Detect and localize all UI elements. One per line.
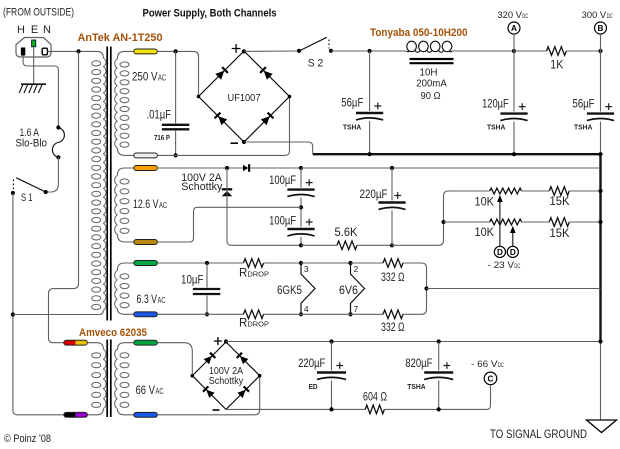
lead band black-purple T2 primary bottom bbox=[64, 412, 88, 417]
wire node N down to Amveco primary bbox=[49, 51, 79, 342]
wire E pin to earth ground bbox=[33, 47, 35, 84]
label 5.6K bbox=[335, 227, 358, 239]
svg-text:5.6K: 5.6K bbox=[335, 227, 358, 239]
node 56uF-1 bottom junction bbox=[368, 152, 372, 156]
wire T2 66VAC bottom lead bbox=[117, 409, 133, 415]
diode BR1 top-left bbox=[215, 67, 228, 80]
wire T1 250VAC top lead into winding bbox=[117, 51, 134, 59]
label TSHA C3 bbox=[574, 122, 593, 131]
label Slo-Blo bbox=[16, 137, 48, 149]
diode BR1 bottom-left bbox=[215, 113, 228, 126]
wire 6V6 pin7 to 332 lower bbox=[351, 313, 384, 315]
capacitor C_RF .01uF 716P bbox=[161, 123, 189, 131]
svg-text:1K: 1K bbox=[550, 59, 563, 71]
switch S1 bbox=[11, 178, 48, 195]
wire T1 primary bottom lead bbox=[13, 310, 103, 314]
resistor R6 332 upper bbox=[383, 259, 403, 268]
wire upper pot to 15K bbox=[522, 190, 550, 192]
node .01uF top junction bbox=[174, 49, 178, 53]
svg-text:56µF: 56µF bbox=[573, 99, 595, 111]
wire B marker stub bbox=[600, 34, 602, 51]
wire 56uF-2 leads bbox=[600, 51, 602, 154]
wire 220uF bottom to pots riser bbox=[392, 191, 490, 245]
node .01uF bottom junction bbox=[174, 153, 178, 157]
wire riser to lower pot row bbox=[444, 221, 490, 223]
node marker B circle bbox=[595, 22, 607, 34]
label (FROM OUTSIDE) bbox=[3, 7, 74, 19]
transformer T1 core bbox=[107, 47, 111, 321]
wire BR2 plus rail bbox=[226, 341, 601, 343]
wire 604 to 820uF bbox=[384, 408, 485, 410]
label 66VAC bbox=[136, 385, 164, 397]
wire 100uF top row to rail bbox=[301, 167, 601, 169]
label -23VDC bbox=[488, 260, 521, 271]
svg-text:Schottky: Schottky bbox=[209, 376, 244, 387]
capacitor C2 120uF TSHA bbox=[500, 103, 528, 121]
svg-text:TSHA: TSHA bbox=[574, 122, 593, 131]
AC mains plug P1 bbox=[16, 38, 51, 58]
label RDROP upper bbox=[239, 267, 269, 279]
label 332 lower bbox=[381, 322, 405, 334]
lead band red-yellow T2 primary top bbox=[64, 340, 88, 345]
bridge rectifier BR2 diamond bbox=[192, 342, 259, 409]
wire 220uF-B leads bbox=[331, 342, 333, 410]
svg-text:AnTek AN-1T250: AnTek AN-1T250 bbox=[78, 32, 163, 44]
label 10uF bbox=[181, 274, 204, 286]
wire 5.6K to 220uF bottom bbox=[357, 244, 392, 246]
label pin 4 bbox=[304, 304, 309, 314]
label 250VAC bbox=[132, 71, 166, 83]
wiper arrow VR1 bbox=[497, 195, 503, 246]
diode BR2 top-left bbox=[204, 353, 216, 365]
node 220uF top junction bbox=[390, 166, 394, 170]
svg-text:H: H bbox=[17, 24, 25, 36]
wire right main rail (thick) bbox=[599, 154, 601, 342]
label 100uF C4 bbox=[269, 175, 296, 187]
tube heater 6GK5 pins 3-4 bbox=[301, 263, 315, 314]
svg-text:7: 7 bbox=[354, 304, 359, 314]
node marker C circle bbox=[484, 372, 497, 385]
capacitor C8 220uF ED bbox=[317, 362, 347, 380]
label UF1007 bbox=[228, 92, 261, 104]
lead band green T2 66VAC top bbox=[134, 340, 158, 345]
label S2 bbox=[308, 57, 324, 69]
svg-text:15K: 15K bbox=[550, 196, 570, 208]
svg-text:S 2: S 2 bbox=[308, 57, 324, 69]
label ED C8 bbox=[309, 382, 319, 391]
transformer T1 250VAC winding bbox=[115, 59, 129, 148]
node 820uF top junction bbox=[437, 339, 441, 343]
label 56uF C1 bbox=[341, 97, 363, 109]
lead band blue T2 66VAC bottom bbox=[134, 412, 158, 417]
diode BR2 bottom-right bbox=[237, 386, 249, 398]
label TSHA C2 bbox=[487, 122, 506, 131]
node marker D circle 1 bbox=[494, 246, 505, 257]
label 200mA bbox=[416, 77, 447, 89]
node rail upper junction bbox=[598, 189, 602, 193]
label BR2 plus bbox=[214, 337, 222, 345]
resistor R4 15K lower bbox=[549, 218, 569, 227]
wire C marker to minus row bbox=[486, 385, 491, 410]
lead band green 6.3VAC top bbox=[134, 261, 158, 266]
wire main negative rail (thick) bbox=[313, 153, 601, 155]
resistor R5 RDROP upper bbox=[243, 259, 263, 268]
label pin 2 bbox=[354, 264, 359, 274]
svg-text:© Poinz '08: © Poinz '08 bbox=[4, 433, 51, 445]
label pin 7 bbox=[354, 304, 359, 314]
label 120uF bbox=[482, 99, 509, 111]
title Power Supply, Both Channels bbox=[143, 7, 277, 19]
capacitor C1 56uF TSHA bbox=[356, 103, 384, 121]
wire D2 to 100uF top bbox=[251, 167, 302, 169]
wire choke to node A bbox=[452, 50, 514, 52]
node B junction bbox=[598, 49, 602, 53]
wire 1K to node B bbox=[566, 50, 600, 52]
node BR2 top vertex bbox=[224, 339, 228, 343]
lead band orange 12.6VAC top bbox=[134, 166, 158, 171]
label 6.3VAC bbox=[137, 294, 166, 306]
svg-text:Slo-Blo: Slo-Blo bbox=[16, 137, 48, 149]
svg-text:RDROP: RDROP bbox=[239, 267, 269, 279]
label 716P bbox=[154, 133, 170, 142]
label 320VDC bbox=[497, 10, 528, 20]
svg-text:C: C bbox=[488, 374, 494, 383]
wire T1 6.3VAC bottom lead bbox=[117, 309, 134, 315]
node X1 junction bbox=[11, 312, 15, 316]
wire T2 primary top lead bbox=[87, 343, 103, 350]
svg-text:TSHA: TSHA bbox=[487, 122, 506, 131]
svg-text:66 VAC: 66 VAC bbox=[136, 385, 164, 397]
wire heater join to rail bbox=[427, 288, 601, 290]
transformer T1 primary winding bbox=[92, 58, 106, 310]
svg-text:ED: ED bbox=[309, 382, 319, 391]
label copyright Poinz bbox=[4, 433, 51, 445]
svg-text:604 Ω: 604 Ω bbox=[363, 392, 387, 404]
capacitor C4 100uF upper bbox=[287, 179, 315, 197]
tube heater 6V6 pins 2-7 bbox=[351, 263, 365, 314]
diode BR1 top-right bbox=[260, 67, 273, 80]
label TSHA C1 bbox=[343, 123, 362, 132]
svg-text:TSHA: TSHA bbox=[343, 123, 362, 132]
wire 12.6VAC top row bbox=[157, 167, 243, 169]
wire 332 upper to join riser bbox=[403, 263, 427, 289]
svg-text:6.3 VAC: 6.3 VAC bbox=[137, 294, 166, 306]
wire BR1 plus to S2 bbox=[244, 50, 299, 52]
svg-text:6GK5: 6GK5 bbox=[277, 285, 302, 297]
resistor R8 332 lower bbox=[383, 310, 403, 319]
label -66VDC bbox=[471, 359, 504, 370]
wire BR1 minus to main negative rail bbox=[244, 142, 313, 154]
svg-text:B: B bbox=[598, 24, 604, 33]
node A junction bbox=[512, 49, 516, 53]
label Schottky D1 bbox=[181, 181, 222, 193]
wire S1 to node X1 and Amveco primary bottom bbox=[13, 193, 64, 415]
wire 332 lower join riser bbox=[403, 289, 427, 315]
label 1K bbox=[550, 59, 563, 71]
svg-text:250 VAC: 250 VAC bbox=[132, 71, 166, 83]
wire S2 to choke bbox=[331, 50, 407, 52]
label 90ohm bbox=[421, 90, 441, 102]
lead band blue 6.3VAC bottom bbox=[134, 312, 158, 317]
wire T1 6.3VAC top lead bbox=[117, 263, 134, 270]
transformer T2 primary winding bbox=[92, 349, 106, 408]
label E bbox=[31, 24, 38, 36]
capacitor C6 220uF mid bbox=[378, 192, 406, 210]
lead band white 250VAC bottom bbox=[134, 153, 158, 158]
resistor R7 RDROP lower bbox=[243, 310, 263, 319]
title Amveco 62035 bbox=[79, 327, 147, 339]
node 10uF bottom junction bbox=[205, 312, 209, 316]
wire H pin to fuse F1 bbox=[23, 56, 58, 126]
wire 56uF-1 leads bbox=[369, 51, 371, 154]
svg-text:E: E bbox=[31, 24, 38, 36]
label 820uF C9 bbox=[405, 358, 432, 370]
svg-text:10µF: 10µF bbox=[181, 274, 204, 286]
svg-text:Power Supply, Both Channels: Power Supply, Both Channels bbox=[143, 7, 277, 19]
wire 6.3V bottom row segment 1 bbox=[157, 313, 243, 315]
wire 820uF leads bbox=[438, 342, 440, 410]
node 220uF-B bottom junction bbox=[329, 407, 333, 411]
lead band olive 12.6VAC bottom bbox=[134, 240, 158, 245]
wire 66VAC bottom to BR2 right vertex bbox=[157, 376, 259, 415]
wire T1 12.6VAC bottom lead bbox=[117, 235, 134, 243]
svg-text:56µF: 56µF bbox=[341, 97, 363, 109]
capacitor C9 820uF TSHA bbox=[424, 362, 454, 380]
label N bbox=[43, 24, 51, 36]
node 820uF bottom junction bbox=[437, 407, 441, 411]
svg-text:100µF: 100µF bbox=[269, 175, 296, 187]
capacitor C5 100uF lower bbox=[287, 219, 315, 237]
svg-text:10K: 10K bbox=[475, 227, 495, 239]
svg-text:D: D bbox=[497, 248, 503, 257]
inductor L1 choke 10H windings bbox=[407, 41, 453, 52]
label .01uF bbox=[147, 110, 172, 122]
svg-text:332 Ω: 332 Ω bbox=[381, 272, 405, 284]
svg-text:12.6 VAC: 12.6 VAC bbox=[133, 199, 167, 211]
wire 15K lower to rail bbox=[569, 221, 600, 223]
label 6V6 bbox=[339, 285, 358, 297]
label 1.6A bbox=[20, 127, 40, 139]
node 100uF bottom junction bbox=[299, 243, 303, 247]
svg-text:120µF: 120µF bbox=[482, 99, 509, 111]
node BR2 left vertex bbox=[191, 374, 195, 378]
resistor VR2 10K lower bbox=[490, 219, 522, 225]
diode D2 Schottky horizontal bbox=[243, 164, 249, 172]
node BR2 rail end junction bbox=[598, 339, 602, 343]
svg-text:200mA: 200mA bbox=[416, 77, 447, 89]
svg-text:6V6: 6V6 bbox=[339, 285, 358, 297]
wire plug N to T1 primary top bbox=[47, 51, 103, 58]
node 220uF bottom junction bbox=[390, 243, 394, 247]
label 10K VR1 bbox=[475, 196, 495, 208]
transformer T2 66VAC winding bbox=[115, 349, 129, 408]
node pots riser junction bbox=[441, 220, 445, 224]
label TSHA C9 bbox=[407, 382, 426, 391]
label 220uF C8 bbox=[298, 358, 325, 370]
label BR1 plus bbox=[232, 44, 241, 53]
svg-text:220µF: 220µF bbox=[298, 358, 325, 370]
wire T1 12.6VAC top lead bbox=[117, 168, 134, 175]
label 100uF C5 bbox=[269, 216, 296, 228]
label 10K VR2 bbox=[475, 227, 495, 239]
wire fuse to switch S1 bbox=[46, 157, 59, 192]
wire 100uF bottom to 5.6K bbox=[301, 244, 337, 246]
earth ground symbol bbox=[19, 84, 46, 93]
svg-text:100µF: 100µF bbox=[269, 216, 296, 228]
wire T1 250VAC bottom lead bbox=[117, 148, 134, 155]
node BR1 bottom vertex bbox=[242, 140, 246, 144]
svg-text:UF1007: UF1007 bbox=[228, 92, 261, 104]
svg-text:TSHA: TSHA bbox=[407, 382, 426, 391]
label 300VDC bbox=[582, 10, 613, 20]
node 10uF top junction bbox=[205, 261, 209, 265]
wire node A to 1K bbox=[514, 50, 547, 52]
wire 6V6 top to 332 upper bbox=[351, 262, 384, 264]
wire right rail to signal ground bbox=[600, 342, 602, 420]
title AnTek AN-1T250 bbox=[78, 32, 163, 44]
wire 120uF leads bbox=[513, 51, 515, 154]
svg-text:Schottky: Schottky bbox=[181, 181, 222, 193]
wire RDROP to 6GK5 pin3 bbox=[264, 262, 301, 264]
svg-text:10K: 10K bbox=[475, 196, 495, 208]
node marker D circle 2 bbox=[507, 246, 518, 257]
svg-text:820µF: 820µF bbox=[405, 358, 432, 370]
fuse F1 1.6A Slo-Blo bbox=[52, 125, 64, 159]
capacitor C3 56uF TSHA bbox=[586, 103, 614, 121]
node BR2 right vertex bbox=[258, 374, 262, 378]
ground symbol signal ground bbox=[587, 420, 617, 433]
wire 15K upper to rail bbox=[569, 190, 600, 192]
wire 10uF leads bbox=[206, 263, 208, 314]
node N junction bbox=[76, 49, 80, 53]
svg-text:220µF: 220µF bbox=[360, 189, 388, 201]
inductor L1 core bars bbox=[410, 59, 454, 63]
label 15K R3 bbox=[550, 196, 570, 208]
label BR2 minus bbox=[213, 409, 220, 411]
bridge rectifier BR1 diamond bbox=[199, 51, 290, 142]
node 220uF-B top junction bbox=[329, 339, 333, 343]
node B rail corner junction bbox=[598, 152, 602, 156]
svg-text:RDROP: RDROP bbox=[239, 317, 269, 329]
node heater join junction bbox=[424, 286, 428, 290]
node marker A circle bbox=[508, 22, 520, 34]
diode BR2 top-right bbox=[237, 353, 249, 365]
node rail lower junction bbox=[598, 220, 602, 224]
node 120uF bottom junction bbox=[512, 152, 516, 156]
label 220uF C6 bbox=[360, 189, 388, 201]
wire 250VAC bottom to bridge right vertex bbox=[157, 97, 289, 156]
wire A marker stub bbox=[513, 34, 515, 51]
wire .01uF cap leads bbox=[175, 51, 177, 155]
wire 66VAC top to BR2 left vertex bbox=[157, 343, 192, 376]
label H bbox=[17, 24, 25, 36]
wire 6GK5 pin4 to 6V6 pin7 bbox=[301, 313, 351, 315]
label 12.6VAC bbox=[133, 199, 167, 211]
switch S2 bbox=[297, 37, 333, 53]
resistor R2 5.6K bbox=[337, 241, 357, 250]
label BR1 minus bbox=[231, 142, 239, 144]
svg-text:S 1: S 1 bbox=[21, 192, 33, 204]
label Schottky BR2 bbox=[209, 376, 244, 387]
diode D1 Schottky vertical bbox=[222, 189, 232, 196]
label TO SIGNAL GROUND bbox=[490, 427, 587, 441]
svg-text:716 P: 716 P bbox=[154, 133, 170, 142]
wire 12.6VAC bottom to cap midpoint bbox=[157, 207, 301, 242]
transformer T2 core bbox=[107, 340, 111, 418]
label 604 bbox=[363, 392, 387, 404]
wire lower pot to 15K bbox=[522, 221, 550, 223]
label 56uF C3 bbox=[573, 99, 595, 111]
wire 220uF leads bbox=[391, 168, 393, 245]
label 100V 2A BR2 bbox=[209, 366, 243, 377]
node Schottky D1 junction bbox=[225, 166, 229, 170]
wire 250VAC top to bridge BR1 bbox=[157, 51, 198, 96]
wire 6.3V top row segment 1 bbox=[157, 262, 243, 264]
svg-text:.01µF: .01µF bbox=[147, 110, 172, 122]
label S1 bbox=[21, 192, 33, 204]
node 100uF-1 top junction bbox=[299, 166, 303, 170]
diode BR1 bottom-right bbox=[261, 113, 274, 126]
svg-text:(FROM OUTSIDE): (FROM OUTSIDE) bbox=[3, 7, 74, 19]
wire T2 66VAC top lead into winding bbox=[117, 343, 133, 350]
label 332 upper bbox=[381, 272, 405, 284]
label 10H bbox=[420, 66, 438, 78]
svg-text:Amveco 62035: Amveco 62035 bbox=[79, 327, 147, 339]
label pin 3 bbox=[304, 264, 309, 274]
node BR1 top vertex bbox=[242, 49, 246, 53]
node 6GK5 pin3 bbox=[299, 261, 303, 265]
resistor VR1 10K upper bbox=[490, 188, 522, 194]
wire 6GK5 to 6V6 top bbox=[301, 262, 351, 264]
svg-text:332 Ω: 332 Ω bbox=[381, 322, 405, 334]
wiper arrow VR2 bbox=[510, 226, 516, 246]
lead band yellow 250VAC top bbox=[134, 49, 158, 54]
svg-text:3: 3 bbox=[304, 264, 309, 274]
svg-text:D: D bbox=[510, 248, 516, 257]
title Tonyaba 050-10H200 bbox=[370, 27, 468, 39]
node 56uF-1 top junction bbox=[368, 49, 372, 53]
capacitor C7 10uF bbox=[192, 288, 220, 296]
wire D1 vertical lead bbox=[227, 168, 301, 245]
transformer T1 12.6VAC winding bbox=[115, 175, 129, 234]
svg-text:2: 2 bbox=[354, 264, 359, 274]
wire BR2 minus row bbox=[226, 408, 365, 410]
transformer T1 6.3VAC winding bbox=[115, 270, 129, 308]
label 15K R4 bbox=[550, 228, 570, 240]
svg-text:TO SIGNAL GROUND: TO SIGNAL GROUND bbox=[490, 427, 587, 441]
resistor R9 604 bbox=[365, 405, 384, 414]
node 6V6 pin2 bbox=[348, 261, 352, 265]
wire T2 primary bottom lead bbox=[87, 409, 103, 415]
node 6V6 pin7 bbox=[348, 312, 352, 316]
svg-text:N: N bbox=[43, 24, 51, 36]
svg-text:90 Ω: 90 Ω bbox=[421, 90, 441, 102]
svg-text:15K: 15K bbox=[550, 228, 570, 240]
svg-text:4: 4 bbox=[304, 304, 309, 314]
node 100uF mid junction bbox=[299, 205, 303, 209]
label 100V 2A bbox=[181, 172, 222, 184]
wire RDROP lower to 6GK5 pin4 bbox=[264, 313, 301, 315]
wire 100uF stack leads bbox=[300, 168, 302, 245]
node BR1 left vertex bbox=[197, 95, 201, 99]
label RDROP lower bbox=[239, 317, 269, 329]
resistor R1 1K bbox=[547, 47, 567, 56]
node BR1 right vertex bbox=[288, 95, 292, 99]
node 6GK5 pin4 bbox=[299, 312, 303, 316]
resistor R3 15K upper bbox=[549, 187, 569, 196]
label 6GK5 bbox=[277, 285, 302, 297]
svg-text:A: A bbox=[511, 24, 517, 33]
